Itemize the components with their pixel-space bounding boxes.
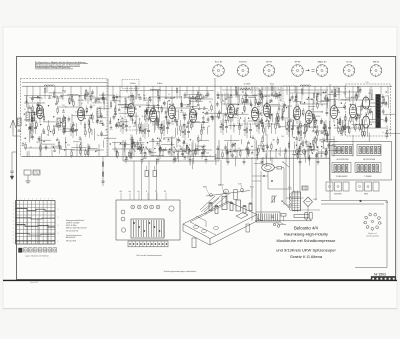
svg-text:70: 70 bbox=[209, 155, 211, 157]
node junction b218 bbox=[186, 145, 187, 146]
svg-text:Graetz K.G Altena: Graetz K.G Altena bbox=[290, 254, 323, 259]
svg-text:50k: 50k bbox=[67, 144, 70, 146]
capacitor Cd75 bbox=[369, 110, 372, 112]
trimmer capacitor b159 bbox=[202, 96, 204, 98]
trimmer capacitor c91 bbox=[252, 110, 254, 112]
node junction d61 bbox=[386, 102, 387, 103]
wire segment h a2 bbox=[39, 139, 51, 141]
svg-text:ECC85: ECC85 bbox=[37, 98, 43, 100]
svg-text:5n: 5n bbox=[336, 110, 338, 112]
wire psu drop 1 bbox=[285, 158, 287, 205]
node junction d17 bbox=[366, 114, 367, 115]
pot bank block bbox=[131, 219, 164, 238]
capacitor Cb39 bbox=[195, 112, 198, 114]
node junction c188 bbox=[322, 111, 323, 112]
wire segment v d54 bbox=[349, 90, 351, 102]
wire segment v a112 bbox=[93, 129, 95, 141]
capacitor Cd80 bbox=[378, 101, 381, 103]
trimmer capacitor c178 bbox=[235, 113, 237, 115]
resistor Ra63 bbox=[58, 142, 59, 146]
resistor R22b bbox=[85, 90, 86, 94]
wire segment v f25 bbox=[177, 152, 179, 159]
wire speaker feed bbox=[262, 157, 264, 165]
wire stage 1 anode bbox=[39, 86, 41, 102]
resistor Rd28 bbox=[359, 126, 360, 130]
node junction d7 bbox=[371, 111, 372, 112]
wire feed 22 bbox=[245, 86, 247, 93]
wire segment h c124 bbox=[241, 101, 249, 103]
node junction d81 bbox=[334, 125, 335, 126]
wire segment v f6 bbox=[191, 158, 193, 169]
wire output coupling bbox=[370, 102, 376, 104]
svg-text:MW 510 1630 kHz 520 kHz: MW 510 1630 kHz 520 kHz bbox=[66, 227, 87, 229]
wire segment h a163 bbox=[29, 112, 36, 114]
resistor Rc74 bbox=[268, 123, 269, 127]
capacitor Cc122 bbox=[320, 119, 323, 121]
capacitor Cb237 bbox=[181, 152, 184, 154]
capacitor Cc174 bbox=[326, 112, 329, 114]
capacitor Cb128 bbox=[115, 124, 118, 126]
resistor Rc48 bbox=[296, 96, 297, 100]
svg-text:8k: 8k bbox=[65, 106, 67, 108]
filter parts bbox=[258, 214, 260, 221]
wire link 10 bbox=[24, 102, 44, 104]
chassis dial bar bbox=[206, 191, 250, 197]
node junction b2 bbox=[130, 95, 131, 96]
magic eye socket view bbox=[378, 222, 381, 225]
node junction e29 bbox=[324, 140, 325, 141]
wire segment v c268 bbox=[269, 150, 271, 161]
trimmer capacitor b129 bbox=[203, 127, 205, 129]
svg-text:12: 12 bbox=[383, 120, 385, 122]
wire segment v b60 bbox=[158, 119, 160, 129]
resistor R72b bbox=[235, 87, 236, 91]
svg-text:2k: 2k bbox=[189, 145, 191, 147]
chassis dial shaft bbox=[225, 192, 227, 204]
svg-text:500: 500 bbox=[281, 136, 284, 138]
trimmer capacitor e15 bbox=[312, 129, 314, 131]
capacitor C124 bbox=[323, 127, 326, 129]
antenna trimmer bbox=[18, 129, 22, 131]
svg-text:8k: 8k bbox=[135, 99, 137, 101]
wire drop 24 bbox=[285, 149, 287, 159]
chassis tube d bbox=[243, 206, 246, 213]
wire feed 26 bbox=[280, 86, 282, 101]
wire segment v a134 bbox=[96, 111, 98, 123]
resistor R90 bbox=[258, 124, 259, 128]
node junction a157 bbox=[69, 103, 70, 104]
capacitor Ca17 bbox=[91, 91, 94, 93]
wire stage 9 cathode bbox=[266, 134, 268, 157]
trimmer capacitor b146 bbox=[202, 117, 204, 119]
resistor Re11 bbox=[326, 151, 327, 155]
resistor Ra151 bbox=[53, 130, 54, 134]
svg-text:30p: 30p bbox=[233, 150, 236, 152]
svg-text:5n: 5n bbox=[143, 144, 145, 146]
trimmer capacitor b40 bbox=[118, 108, 120, 110]
trimmer capacitor c120 bbox=[271, 93, 273, 95]
capacitor Cf4 bbox=[174, 158, 177, 160]
tube V15 EL84 lower bbox=[362, 116, 369, 128]
capacitor Cd6 bbox=[355, 94, 358, 96]
wire segment h a21 bbox=[49, 92, 63, 94]
wire segment v c152 bbox=[226, 105, 228, 110]
tone switch S6 bbox=[202, 147, 206, 152]
wire link 18 bbox=[24, 147, 60, 149]
wire segment h a189 bbox=[100, 134, 107, 136]
chassis IF can a bbox=[222, 197, 227, 210]
resistor R110 bbox=[300, 131, 301, 135]
wire feed 33 bbox=[336, 86, 338, 92]
wire segment h d89 bbox=[383, 113, 395, 115]
resistor Rd79 bbox=[349, 129, 350, 133]
node junction b219 bbox=[190, 139, 191, 140]
node junction c139 bbox=[230, 95, 231, 96]
wire link 24 bbox=[318, 151, 328, 153]
node junction b147 bbox=[154, 113, 155, 114]
resistor R10 bbox=[31, 126, 32, 130]
node junction d39 bbox=[339, 112, 340, 113]
wire stage 4 cathode bbox=[152, 139, 154, 157]
wire stage 2 anode bbox=[80, 86, 82, 104]
wire segment h b227 bbox=[161, 143, 174, 145]
wire panel bus upper bbox=[321, 199, 387, 201]
wire segment v b168 bbox=[180, 96, 182, 108]
capacitor Ca48 bbox=[102, 97, 105, 99]
resistor Ra20 bbox=[86, 108, 87, 112]
capacitor C40 bbox=[102, 180, 105, 182]
node junction b32 bbox=[122, 118, 123, 119]
wire link 25 bbox=[334, 127, 388, 129]
capacitor Cb171 bbox=[130, 115, 133, 117]
dial pulley C bbox=[241, 189, 244, 192]
node junction a167 bbox=[37, 96, 38, 97]
ballast resistor strip bbox=[294, 215, 309, 218]
wire segment h a32 bbox=[73, 141, 80, 143]
wire link 7 bbox=[252, 94, 282, 96]
wire segment v c149 bbox=[244, 107, 246, 113]
wire segment v a56 bbox=[87, 147, 89, 153]
svg-text:Musiktruhe mit Schallkompresso: Musiktruhe mit Schallkompressor bbox=[277, 238, 337, 243]
node junction c26 bbox=[256, 155, 257, 156]
capacitor Cd32 bbox=[385, 103, 388, 105]
decoupling capacitor Cd0 bbox=[125, 157, 127, 160]
chassis right face bbox=[210, 215, 257, 246]
fuse F1 bbox=[281, 214, 286, 217]
capacitor Cc135 bbox=[217, 93, 220, 95]
trimmer capacitor b96 bbox=[110, 127, 112, 129]
wire segment h e35 bbox=[318, 130, 327, 132]
trimmer capacitor f27 bbox=[184, 157, 186, 159]
node junction e25 bbox=[309, 126, 310, 127]
tube socket top view U7 EM 84 bbox=[370, 61, 382, 76]
chassis hole 3 bbox=[213, 227, 218, 230]
svg-text:5n: 5n bbox=[75, 112, 77, 114]
capacitor Cd47 bbox=[359, 89, 362, 91]
wire segment h c94 bbox=[324, 99, 338, 101]
tube socket top view U1 ECC 85 bbox=[212, 61, 224, 76]
svg-text:100: 100 bbox=[133, 126, 136, 128]
trimmer capacitor b163 bbox=[115, 123, 117, 125]
capacitor Cb21 bbox=[140, 148, 143, 150]
resistor R20 bbox=[72, 128, 73, 132]
wire link 22 bbox=[220, 149, 260, 151]
resistor Ra115 bbox=[64, 128, 65, 132]
capacitor Cc232 bbox=[231, 154, 234, 156]
capacitor C121 bbox=[328, 127, 331, 129]
wire second rail left bbox=[22, 82, 107, 84]
resistor Ra15 bbox=[69, 99, 70, 103]
wire segment v b16 bbox=[166, 116, 168, 125]
svg-text:8k: 8k bbox=[205, 114, 207, 116]
resistor R70 bbox=[222, 125, 223, 129]
resistor R133 bbox=[361, 125, 362, 129]
tube V2 bbox=[77, 107, 84, 120]
svg-text:5n: 5n bbox=[168, 94, 170, 96]
resistor Rc28 bbox=[258, 148, 259, 152]
trimmer capacitor a119 bbox=[59, 146, 61, 148]
wire link 1 bbox=[60, 95, 88, 97]
wire segment v c99 bbox=[222, 114, 224, 126]
node junction d56 bbox=[350, 104, 351, 105]
dial pulley A bbox=[210, 194, 213, 197]
trimmer capacitor e2 bbox=[315, 156, 317, 158]
resistor Rb273 bbox=[132, 138, 133, 142]
resistor Ra117 bbox=[103, 99, 104, 103]
resistor Rc23 bbox=[222, 153, 223, 157]
DIN socket cluster F bbox=[356, 182, 363, 191]
wire segment v c123 bbox=[227, 93, 229, 106]
trimmer capacitor f31 bbox=[143, 156, 145, 158]
wire segment v c137 bbox=[238, 95, 240, 103]
wire feed 8 bbox=[112, 86, 114, 100]
tube socket bottom row bbox=[24, 248, 28, 252]
wire segment v a61 bbox=[29, 130, 31, 142]
wire segment v f21 bbox=[186, 147, 188, 154]
wire segment v b69 bbox=[136, 124, 138, 134]
mains plug bbox=[273, 223, 276, 226]
trimmer capacitor a104 bbox=[36, 111, 38, 113]
wire feed 13 bbox=[159, 86, 161, 101]
trimmer capacitor c179 bbox=[295, 95, 297, 97]
node junction c104 bbox=[242, 112, 243, 113]
trimmer capacitor c69 bbox=[320, 121, 322, 123]
rear panel pot box bbox=[116, 200, 180, 240]
node junction b226 bbox=[143, 147, 144, 148]
node junction c75 bbox=[323, 92, 324, 93]
wire segment v f7 bbox=[155, 158, 157, 164]
ratio detector can T4 (dashed) bbox=[283, 86, 296, 120]
output transformer T5 hatch bbox=[376, 96, 381, 98]
wire segment v b256 bbox=[114, 142, 116, 152]
wire stage 6 anode bbox=[192, 86, 194, 106]
UKW tuner enclosure (dashed) bbox=[21, 79, 108, 157]
antenna terminal block bbox=[24, 170, 31, 175]
node junction b240 bbox=[110, 143, 111, 144]
node junction a132 bbox=[40, 124, 41, 125]
chassis hole 1 bbox=[193, 226, 198, 229]
wire segment h f9 bbox=[151, 155, 164, 157]
output transformer T5 core bbox=[376, 95, 381, 128]
wire drop 8 bbox=[124, 145, 126, 156]
trimmer capacitor d46 bbox=[358, 115, 360, 117]
resistor Re0 bbox=[326, 135, 327, 139]
svg-text:500: 500 bbox=[311, 109, 314, 111]
svg-text:ECC 85: ECC 85 bbox=[215, 61, 223, 63]
node junction a76 bbox=[91, 114, 92, 115]
capacitor Ca135 bbox=[38, 138, 41, 140]
resistor Rb53 bbox=[211, 106, 212, 110]
svg-text:25p: 25p bbox=[129, 127, 132, 129]
wire segment v c60 bbox=[232, 114, 234, 122]
resistor R13 bbox=[48, 126, 49, 130]
resistor R113 bbox=[317, 131, 318, 135]
divider network R70 bbox=[145, 171, 148, 177]
tube socket top view U4 EF 89 bbox=[291, 61, 303, 76]
svg-text:EM 84: EM 84 bbox=[373, 61, 380, 63]
trimmer capacitor c52 bbox=[257, 102, 259, 104]
wire segment h b38 bbox=[186, 106, 197, 108]
node junction c239 bbox=[235, 143, 236, 144]
wire segment v c117 bbox=[312, 99, 314, 112]
wire feed 9 bbox=[119, 86, 121, 103]
node junction b267 bbox=[159, 148, 160, 149]
capacitor Cc16 bbox=[317, 92, 320, 94]
resistor R30 bbox=[122, 124, 123, 128]
speaker socket group B bbox=[357, 145, 381, 156]
wire segment h c1 bbox=[248, 97, 256, 99]
capacitor C34 bbox=[120, 125, 123, 127]
resistor Rb18 bbox=[196, 97, 197, 101]
wire segment v a72 bbox=[54, 127, 56, 134]
node junction e24 bbox=[317, 147, 318, 148]
capacitor Cb30 bbox=[180, 103, 183, 105]
wire feed 14 bbox=[165, 86, 167, 98]
svg-text:220: 220 bbox=[171, 124, 174, 126]
trimmer capacitor b157 bbox=[198, 107, 200, 109]
wire to Nr box bbox=[355, 267, 387, 269]
trimmer capacitor f24 bbox=[125, 157, 127, 159]
wire segment h c17 bbox=[293, 101, 303, 103]
node junction a144 bbox=[26, 125, 27, 126]
trimmer capacitor f16 bbox=[137, 146, 139, 148]
capacitor Cb126 bbox=[155, 118, 158, 120]
capacitor Cf26 bbox=[144, 152, 147, 154]
wire right drop bbox=[386, 200, 388, 267]
trimmer capacitor e23 bbox=[321, 131, 323, 133]
wire link 9 bbox=[334, 91, 360, 93]
svg-text:220: 220 bbox=[385, 96, 388, 98]
resistor Rd70 bbox=[334, 101, 335, 105]
resistor R32b bbox=[135, 86, 136, 90]
node junction c284 bbox=[294, 154, 295, 155]
decoupling capacitor Cd8 bbox=[261, 158, 263, 161]
wire feed 15 bbox=[179, 86, 181, 98]
trimmer capacitor a155 bbox=[48, 96, 50, 98]
wire segment v c228 bbox=[309, 155, 311, 165]
node junction c183 bbox=[271, 123, 272, 124]
wire segment v b102 bbox=[167, 119, 169, 128]
tone switch S1 bbox=[132, 147, 136, 152]
capacitor Cb25 bbox=[132, 141, 135, 143]
svg-text:8k: 8k bbox=[370, 109, 372, 111]
trimmer capacitor b73 bbox=[191, 119, 193, 121]
capacitor C31 bbox=[125, 125, 128, 127]
resistor Rb13 bbox=[110, 103, 111, 107]
wire drop 17 bbox=[218, 146, 220, 159]
trimmer capacitor f5 bbox=[194, 151, 196, 153]
svg-text:Potis an der Geraeterueckwand: Potis an der Geraeterueckwand bbox=[136, 254, 161, 257]
node junction c61 bbox=[225, 98, 226, 99]
wire pot feed 4 bbox=[156, 161, 158, 200]
node junction a118 bbox=[79, 95, 80, 96]
capacitor Cc47 bbox=[291, 96, 294, 98]
wire link 23 bbox=[268, 150, 310, 152]
trimmer capacitor c77 bbox=[260, 119, 262, 121]
resistor Re8 bbox=[306, 126, 307, 130]
wire segment v d13 bbox=[365, 112, 367, 121]
chassis hole 2 bbox=[201, 230, 206, 233]
wire segment h b47 bbox=[120, 121, 128, 123]
coil L4 bbox=[300, 85, 310, 86]
capacitor Cb225 bbox=[168, 151, 171, 153]
resistor Rb212 bbox=[129, 152, 130, 156]
resistor Rc144 bbox=[283, 108, 284, 112]
connection panel frame bbox=[330, 142, 392, 181]
svg-text:0,5: 0,5 bbox=[238, 148, 240, 150]
capacitor Cb10 bbox=[174, 119, 177, 121]
wire drop 4 bbox=[76, 144, 78, 157]
wire segment h b262 bbox=[112, 142, 122, 144]
pilot lamp LP2 bbox=[302, 150, 306, 154]
resistor Rd41 bbox=[362, 132, 363, 136]
wire drop 1 bbox=[40, 145, 42, 156]
resistor Rb106 bbox=[157, 118, 158, 122]
wire segment v e21 bbox=[297, 126, 299, 135]
node junction d1 bbox=[356, 124, 357, 125]
node junction a174 bbox=[64, 149, 65, 150]
capacitor C51 bbox=[166, 127, 169, 129]
wire chassis to psu bbox=[257, 218, 263, 221]
wire psu h y181 bbox=[252, 180, 261, 182]
wire segment v c283 bbox=[226, 154, 228, 162]
loudspeaker LS1 bbox=[262, 164, 275, 172]
wire segment v b118 bbox=[135, 112, 137, 121]
resistor R50 bbox=[277, 167, 282, 169]
wire feed 35 bbox=[358, 86, 360, 97]
wire drop 19 bbox=[236, 151, 238, 159]
wire mains input bbox=[276, 222, 283, 225]
node junction a150 bbox=[65, 117, 66, 118]
wire segment h e10 bbox=[327, 145, 335, 147]
wire segment h c242 bbox=[233, 149, 242, 151]
capacitor C11 bbox=[34, 127, 37, 129]
wire segment v b131 bbox=[109, 117, 111, 124]
wire stage 5 anode bbox=[171, 86, 173, 102]
resistor R122b bbox=[338, 88, 339, 92]
schematic border frame bbox=[17, 57, 396, 280]
svg-text:FM 10,7 MHz: FM 10,7 MHz bbox=[66, 241, 76, 243]
capacitor Cf19 bbox=[183, 142, 186, 144]
wire segment h e46 bbox=[310, 126, 318, 128]
capacitor Cb3 bbox=[125, 105, 128, 107]
coil block L12 bbox=[57, 118, 60, 127]
svg-text:10k: 10k bbox=[179, 141, 182, 143]
capacitor Cb251 bbox=[131, 142, 134, 144]
resistor R50 bbox=[163, 126, 164, 130]
wire segment v f11 bbox=[216, 152, 218, 160]
wire feed 3 bbox=[54, 86, 56, 98]
